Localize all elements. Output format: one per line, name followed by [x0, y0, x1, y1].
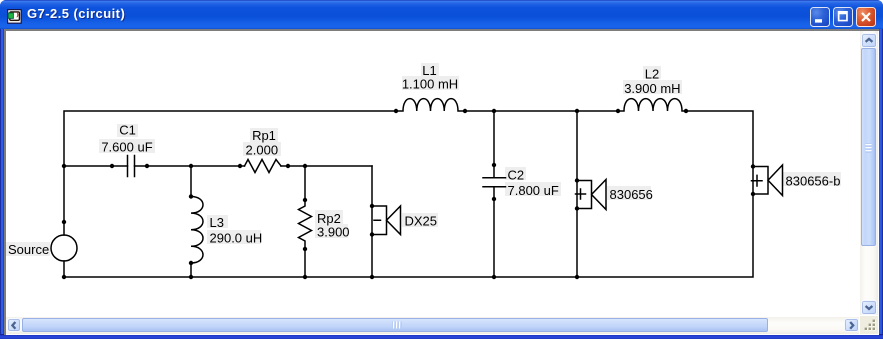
svg-text:C1: C1 [119, 123, 136, 138]
svg-text:830656: 830656 [610, 187, 653, 202]
svg-text:1.100 mH: 1.100 mH [402, 77, 458, 92]
svg-text:830656-b: 830656-b [786, 174, 841, 189]
svg-text:Rp1: Rp1 [252, 128, 276, 143]
svg-text:3.900: 3.900 [317, 225, 350, 240]
svg-text:290.0 uH: 290.0 uH [210, 231, 263, 246]
svg-text:Source: Source [8, 242, 49, 257]
svg-text:C2: C2 [508, 168, 525, 183]
svg-text:2.000: 2.000 [246, 143, 279, 158]
svg-text:L3: L3 [210, 215, 224, 230]
svg-text:7.600 uF: 7.600 uF [101, 140, 152, 155]
svg-text:L2: L2 [645, 67, 659, 82]
svg-text:DX25: DX25 [405, 214, 438, 229]
svg-text:7.800 uF: 7.800 uF [508, 183, 559, 198]
svg-text:3.900 mH: 3.900 mH [624, 81, 680, 96]
